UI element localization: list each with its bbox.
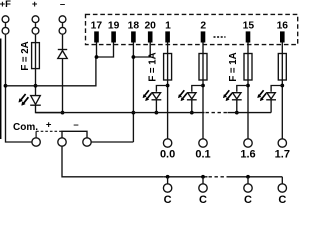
wire LED branch channel 16: [271, 86, 282, 92]
wire fuse to terminal 1.6: [247, 80, 249, 139]
node 18/20 junction: [132, 55, 136, 59]
svg-text:0.1: 0.1: [195, 149, 210, 161]
terminal Com2: [58, 138, 66, 146]
terminal - upper: [59, 16, 66, 23]
wire pin 20 to pin 18: [133, 43, 150, 58]
svg-text:+: +: [32, 0, 38, 10]
wire LED to minus bus start: [36, 105, 63, 112]
svg-text:16: 16: [277, 21, 289, 32]
wire to terminal C2: [202, 177, 204, 184]
svg-text:Com.: Com.: [13, 122, 38, 133]
minus bus: [36, 112, 205, 114]
wire Com3 to minus bus: [91, 141, 133, 143]
node C1 junction: [166, 175, 170, 179]
svg-text:–: –: [73, 120, 78, 131]
wire fuse to terminal 0.0: [167, 80, 169, 139]
wire pin 19 to pin 17: [97, 43, 114, 58]
terminal +F lower: [2, 27, 9, 34]
terminal C2: [199, 184, 207, 192]
svg-text:F = 2A: F = 2A: [20, 41, 31, 70]
wire to terminal C1: [167, 177, 169, 184]
wire fuse to +rail: [35, 69, 37, 96]
svg-text:C: C: [199, 194, 207, 205]
node LED2 bus junction: [190, 111, 194, 115]
LED channel 15: [223, 90, 241, 101]
terminal +F upper: [2, 16, 9, 23]
fuse F=1A channel 15: [244, 54, 252, 81]
power LED: [19, 94, 41, 105]
node LED1 bus junction: [155, 111, 159, 115]
wire to terminal C4: [281, 177, 283, 184]
svg-text:0.0: 0.0: [160, 149, 175, 161]
wire fuse to terminal 1.7: [281, 80, 283, 139]
node 18/20 minus bus junction: [132, 111, 136, 115]
node channel 2 junction: [201, 84, 205, 88]
terminal + upper: [32, 16, 39, 23]
terminal C4: [278, 184, 286, 192]
wire pin 1 to fuse: [167, 43, 169, 54]
node - bus junction: [61, 111, 65, 115]
wire LED to minus bus: [155, 100, 157, 113]
LED channel 16: [258, 90, 276, 101]
terminal + lower: [32, 27, 39, 34]
svg-text:15: 15: [243, 21, 255, 32]
svg-text:20: 20: [144, 21, 156, 32]
svg-text:C: C: [244, 194, 252, 205]
solid jumper Com2 to Com3: [62, 131, 87, 138]
wire fuse to terminal 0.1: [202, 80, 204, 139]
node C3 junction: [246, 175, 250, 179]
svg-text:18: 18: [128, 21, 140, 32]
wire pin 15 to fuse: [247, 43, 249, 54]
dashed jumper Com1 to Com2: [35, 131, 37, 138]
svg-text:C: C: [278, 194, 286, 205]
wire LED branch channel 1: [156, 86, 167, 92]
C bus: [164, 176, 208, 178]
connector dashed outline: [86, 14, 298, 44]
svg-text:17: 17: [91, 21, 103, 32]
node 17/19 junction: [95, 55, 99, 59]
terminal Com1: [32, 138, 40, 146]
terminal 1.7: [278, 139, 286, 147]
svg-text:+F: +F: [0, 0, 11, 10]
fuse channel 2: [199, 54, 207, 81]
wire +F terminals link: [5, 23, 7, 27]
wire pin 17 down: [96, 43, 98, 58]
LED channel 1: [143, 90, 161, 101]
svg-text:2: 2: [200, 21, 206, 32]
wire LED to minus bus: [236, 100, 238, 113]
terminal - lower: [59, 27, 66, 34]
wire + terminals link: [35, 23, 37, 27]
terminal 0.1: [199, 139, 207, 147]
page border fragment at left edge: [0, 39, 2, 140]
node C2 junction: [201, 175, 205, 179]
LED channel 2: [178, 90, 196, 101]
wire LED branch channel 2: [192, 86, 203, 92]
svg-text:1: 1: [165, 21, 171, 32]
wire diode to minus bus: [62, 59, 64, 113]
node channel 16 junction: [280, 84, 284, 88]
ellipsis between pin 2 and pin 15: [214, 36, 226, 38]
wire Com2 to C bus: [62, 146, 164, 177]
svg-text:–: –: [60, 0, 65, 10]
wire + terminal to fuse: [35, 35, 37, 43]
svg-text:1.7: 1.7: [275, 149, 290, 161]
svg-text:1.6: 1.6: [240, 149, 255, 161]
fuse F=2A: [32, 43, 40, 69]
wire LED to minus bus: [191, 100, 193, 113]
+rail wire: [6, 57, 96, 86]
node channel 15 junction: [246, 84, 250, 88]
terminal C1: [163, 184, 171, 192]
fuse channel 16: [278, 54, 286, 81]
terminal 0.0: [163, 139, 171, 147]
wire pin 18 down to minus bus and Com: [132, 43, 134, 143]
wire to terminal C3: [247, 177, 249, 184]
terminal 1.6: [244, 139, 252, 147]
node LED15 bus junction: [235, 111, 239, 115]
node +F / +rail junction: [4, 84, 8, 88]
svg-text:+: +: [46, 120, 52, 131]
wire - terminals link: [62, 23, 64, 27]
svg-text:F = 1A: F = 1A: [147, 52, 158, 81]
wire +F down to Com bus: [6, 35, 33, 142]
svg-text:19: 19: [108, 21, 120, 32]
diode D1 (cathode up): [58, 49, 67, 51]
terminal C3: [244, 184, 252, 192]
wire LED branch channel 15: [237, 86, 248, 92]
terminal Com3: [83, 138, 91, 146]
svg-text:C: C: [164, 194, 172, 205]
wire LED to minus bus end: [270, 100, 272, 113]
wire pin 16 to fuse: [281, 43, 283, 54]
svg-text:F = 1A: F = 1A: [228, 52, 239, 81]
node channel 1 junction: [166, 84, 170, 88]
node + rail junction: [34, 84, 38, 88]
wire pin 2 to fuse: [202, 43, 204, 54]
wire - terminal to diode: [62, 35, 64, 51]
fuse F=1A channel 1: [164, 54, 172, 81]
